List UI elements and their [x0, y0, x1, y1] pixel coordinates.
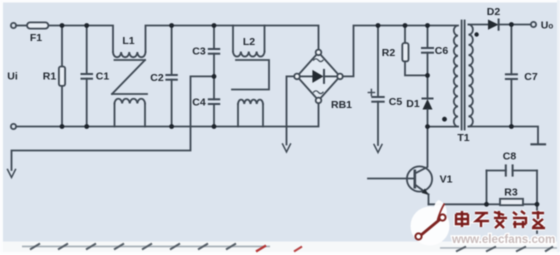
wire L1 bottom stubs	[114, 104, 116, 127]
svg-text:R3: R3	[504, 187, 518, 199]
svg-text:D1: D1	[406, 98, 420, 110]
inductor L1 bottom winding	[115, 99, 146, 104]
capacitor C3	[213, 26, 215, 50]
svg-text:C3: C3	[192, 46, 206, 58]
node snubber right	[535, 202, 540, 207]
L1 core diagonal	[112, 60, 145, 94]
svg-text:RB1: RB1	[331, 99, 352, 111]
watermark text 电子发烧友 (drawn strokes)	[456, 211, 545, 228]
wire top rail to L1	[48, 26, 113, 53]
wire D2 to output terminal	[499, 24, 531, 26]
inductor L2 bottom winding	[238, 100, 263, 104]
svg-text:F1: F1	[30, 32, 42, 44]
node C3 C4 midpoint	[212, 74, 217, 79]
svg-text:C8: C8	[503, 151, 517, 163]
diode D1	[423, 98, 433, 100]
capacitor C1	[86, 26, 88, 75]
resistor R2	[404, 26, 406, 44]
capacitor C8	[487, 170, 506, 172]
ground arrow (bridge DC minus)	[283, 144, 291, 152]
wire D1 node to transformer primary bottom	[428, 126, 459, 128]
phase dot T1 primary	[442, 117, 447, 122]
node top rail C2	[169, 23, 174, 28]
output bottom rail	[469, 127, 539, 144]
node bottom rail C1	[84, 124, 89, 129]
capacitor C6	[427, 26, 429, 49]
output terminal Uo	[531, 22, 536, 27]
snubber block right wire	[536, 171, 538, 205]
svg-text:Ui: Ui	[7, 71, 18, 83]
svg-text:D2: D2	[487, 6, 501, 18]
node bottom rail C4	[212, 124, 217, 129]
svg-text:C4: C4	[192, 97, 206, 109]
node top rail C1	[84, 23, 89, 28]
wire collector riser	[415, 127, 428, 174]
svg-text:C6: C6	[435, 45, 449, 57]
node top rail R1	[60, 23, 65, 28]
transformer T1 secondary winding	[469, 25, 473, 127]
diode D2	[488, 20, 499, 30]
watermark logo circle	[411, 200, 450, 246]
capacitor C2	[171, 26, 173, 76]
node D2 C7	[509, 22, 514, 27]
resistor R1	[61, 26, 63, 67]
node top rail C3	[212, 23, 217, 28]
node snubber left	[484, 202, 489, 207]
svg-text:C5: C5	[389, 96, 403, 108]
wire	[16, 25, 27, 27]
capacitor C5	[377, 26, 379, 98]
fuse F1	[27, 22, 48, 28]
input terminal bottom	[11, 124, 16, 129]
inductor L2 top winding	[232, 26, 234, 52]
svg-text:V1: V1	[440, 174, 453, 186]
node bottom rail R1	[60, 124, 65, 129]
inductor L1 top winding	[113, 52, 145, 57]
wire secondary top to D2	[469, 24, 489, 26]
svg-text:L2: L2	[243, 36, 255, 48]
svg-text:L1: L1	[122, 35, 134, 47]
node R2 C6 D1	[425, 73, 430, 78]
node DC rail C5	[376, 23, 381, 28]
earth wire from C3/C4 midpoint	[12, 76, 215, 170]
transformer T1 primary winding	[454, 26, 458, 127]
snubber block left wire	[486, 171, 488, 205]
svg-text:C2: C2	[150, 72, 164, 84]
bridge rectifier RB1	[297, 52, 340, 100]
svg-text:C1: C1	[96, 71, 110, 83]
svg-text:R2: R2	[382, 47, 396, 59]
input terminal top	[11, 23, 16, 28]
svg-text:www.elecfans.com: www.elecfans.com	[451, 233, 555, 246]
L2 core lines	[232, 60, 269, 90]
wire	[146, 26, 319, 53]
svg-text:R1: R1	[43, 71, 57, 83]
capacitor C7	[510, 25, 512, 75]
wire snubber tail	[536, 204, 538, 233]
wire bridge right corner DC+	[343, 26, 456, 77]
node DC rail R2	[403, 23, 408, 28]
node bottom rail C2	[169, 124, 174, 129]
node DC rail C6	[425, 23, 430, 28]
capacitor C4	[213, 76, 215, 99]
bottom rail	[16, 103, 318, 127]
L1 core line lower	[112, 93, 147, 95]
svg-text:C7: C7	[524, 71, 538, 83]
node C7 bottom	[509, 124, 514, 129]
plus mark C5	[368, 92, 374, 94]
svg-text:T1: T1	[457, 132, 469, 144]
resistor R3	[487, 203, 501, 205]
transformer T1 core	[461, 21, 463, 130]
L1 core line	[115, 59, 146, 61]
earth arrow	[8, 170, 16, 178]
svg-text:Uo: Uo	[541, 20, 554, 32]
ground arrow C5	[374, 145, 382, 153]
bottom cropped strip	[3, 242, 557, 253]
node D1 primary collector	[425, 124, 430, 129]
wire bridge left corner to ground	[287, 76, 295, 144]
phase dot T1 secondary	[474, 32, 478, 36]
ground bar output	[532, 143, 546, 145]
transistor V1	[407, 166, 432, 191]
